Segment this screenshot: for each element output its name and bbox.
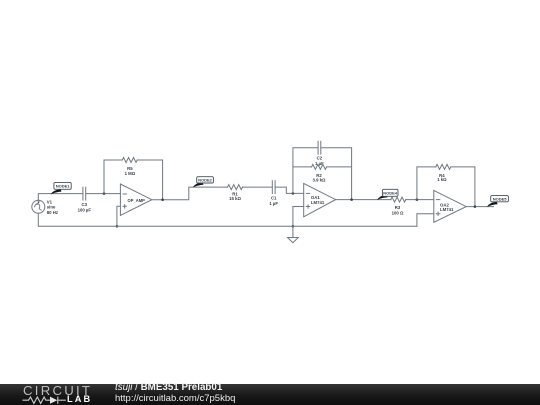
resistor R2 (312, 164, 327, 169)
url line (115, 393, 235, 404)
junction dot plus rail (116, 225, 119, 228)
title line (115, 382, 222, 393)
wire OA2 plus input to rail (417, 214, 434, 227)
resistor R1 (228, 185, 243, 190)
wire OA2 output (466, 206, 493, 208)
junction dot feedback right C2R2 (350, 198, 353, 201)
ground symbol (288, 226, 299, 242)
node junction on input wire (103, 192, 106, 195)
wire C3 to OP_AMP minus input (86, 193, 121, 195)
label V1 sine 80 Hz (47, 199, 58, 214)
label OA1 LM741 (311, 195, 325, 205)
CircuitLab logo text CIRCUIT (23, 383, 92, 398)
resistor R3 (391, 197, 406, 202)
node label NODE1 (51, 182, 71, 194)
wire bottom ground rail (38, 213, 417, 226)
wire R4 feedback loop (417, 167, 475, 207)
resistor R4 (436, 164, 451, 169)
capacitor C2 (318, 141, 321, 154)
op-amp U1 OP_AMP (120, 184, 151, 215)
wire OP_AMP output (152, 187, 228, 200)
junction dot R4 tap (416, 198, 419, 201)
CircuitLab logo LAB (67, 394, 92, 404)
wire V1 top to C3 (38, 194, 82, 201)
footer bar (0, 384, 540, 405)
wire OP_AMP plus input to ground rail (117, 206, 121, 226)
voltage source V1 (32, 200, 45, 213)
junction dot OA1 input (292, 192, 295, 195)
wire OA1 plus input to ground rail (293, 207, 304, 227)
node label NODE5 (487, 196, 509, 207)
node label NODE2 (193, 177, 214, 188)
wire OA1 output to OA2 minus input (336, 199, 434, 201)
capacitor C1 (272, 181, 275, 194)
label OA2 LM741 (440, 202, 454, 212)
op-amp OA2 (434, 190, 466, 222)
node label NODE4 (377, 189, 398, 200)
resistor R5 (122, 158, 137, 163)
wire R5 feedback loop (104, 160, 163, 200)
wire C1 to OA1 minus input (275, 187, 303, 193)
op-amp OA1 (304, 183, 336, 216)
junction dot output/feedback (161, 198, 164, 201)
junction dot OA2 output (474, 205, 477, 208)
capacitor C3 (83, 187, 86, 200)
junction dot ground rail (292, 225, 295, 228)
wire C2 R2 feedback loop (293, 148, 352, 200)
wire R1 to C1 (243, 186, 273, 188)
